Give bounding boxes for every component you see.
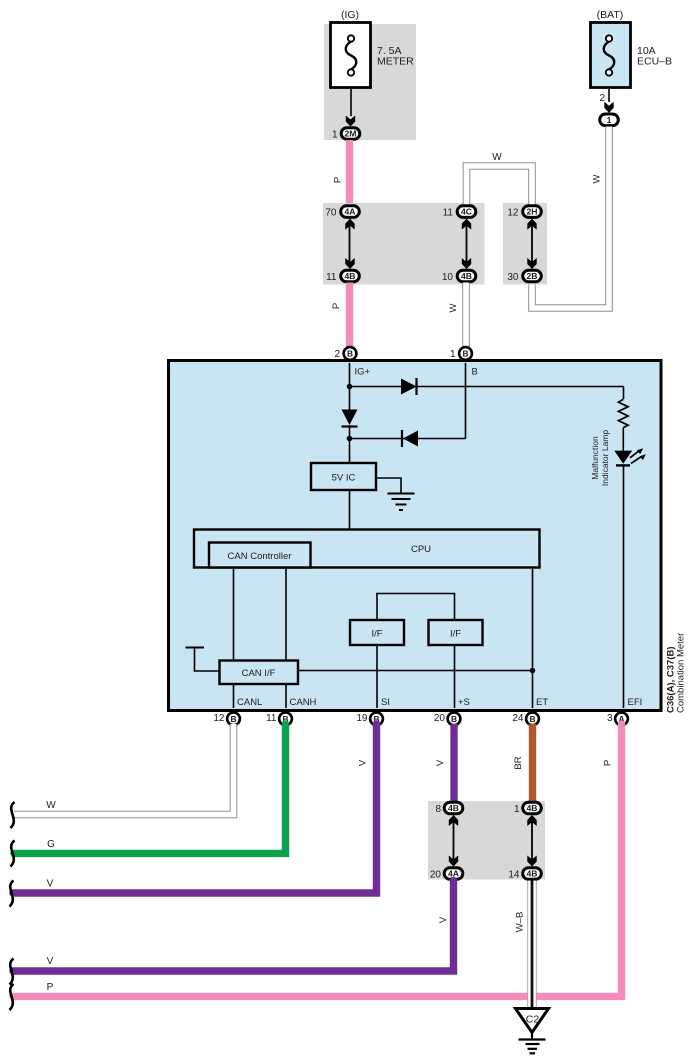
svg-text:V: V — [438, 916, 449, 923]
wire W-B (4B to ground C2) — [527, 881, 537, 1009]
svg-text:B: B — [230, 714, 236, 724]
svg-text:1: 1 — [332, 129, 338, 140]
svg-text:Combination Meter: Combination Meter — [676, 633, 687, 713]
svg-text:19: 19 — [356, 713, 368, 724]
connector 4B mid — [457, 270, 476, 282]
svg-text:4B: 4B — [461, 271, 472, 281]
connector 4B (lower) — [523, 868, 542, 880]
arrow into 2M — [346, 116, 355, 127]
svg-text:EFI: EFI — [628, 697, 643, 708]
svg-text:11: 11 — [443, 207, 454, 218]
svg-text:V: V — [47, 879, 54, 890]
svg-text:Indicator Lamp: Indicator Lamp — [600, 430, 610, 486]
diode D3 — [401, 430, 403, 447]
svg-text:B: B — [472, 367, 478, 378]
continuation squiggle — [11, 802, 15, 828]
svg-text:B: B — [529, 714, 535, 724]
wire G (CANH out) — [14, 724, 286, 853]
interface I/F 2 — [429, 620, 483, 645]
svg-text:8: 8 — [435, 804, 441, 815]
pass-through arrow 4C-4B — [466, 224, 468, 263]
connector 2H — [523, 206, 542, 218]
terminator stub — [186, 647, 205, 649]
junction diode node — [347, 436, 353, 442]
wire W (4C to 2H) — [467, 166, 533, 205]
fuse F2 10A ECU-B body — [591, 23, 631, 88]
wire BR (ET to 4B) — [529, 724, 536, 802]
LED D4 malfunction indicator lamp — [614, 451, 632, 464]
fuse F1 element — [346, 42, 357, 70]
svg-text:10: 10 — [442, 272, 454, 283]
ground C2 — [516, 1009, 549, 1033]
wire 5V IC to ground — [376, 478, 401, 493]
wire +S to pin — [454, 645, 456, 708]
svg-text:SI: SI — [381, 697, 390, 708]
regulator 5V IC — [311, 463, 376, 490]
svg-text:12: 12 — [507, 207, 519, 218]
wire lamp to EFI pin — [623, 466, 625, 709]
svg-text:METER: METER — [377, 56, 414, 68]
svg-text:4B: 4B — [527, 803, 538, 813]
svg-text:2M: 2M — [345, 129, 357, 139]
PART: bottom wires — [10, 724, 622, 1053]
junction connector shading bottom — [428, 801, 545, 880]
svg-text:24: 24 — [512, 713, 524, 724]
connector 4A (lower) — [444, 868, 463, 880]
svg-text:W: W — [448, 303, 459, 312]
pass-through arrow 4A-4B — [349, 224, 351, 263]
wire V (4A out) — [13, 881, 454, 972]
connector 2M — [341, 128, 360, 140]
svg-text:B: B — [451, 714, 457, 724]
connector 4B left — [341, 270, 360, 282]
wire B vertical — [465, 363, 467, 439]
svg-text:1: 1 — [607, 115, 612, 125]
connector pin A (EFI) — [615, 712, 628, 725]
connector pin B (CANH) — [279, 712, 292, 725]
junction block shading (IG) — [324, 24, 416, 140]
svg-text:ECU–B: ECU–B — [637, 56, 672, 68]
svg-text:W: W — [46, 800, 56, 811]
PART: BAT fuse area — [532, 9, 672, 308]
svg-text:12: 12 — [213, 713, 225, 724]
svg-text:(BAT): (BAT) — [597, 9, 624, 21]
connector 2B — [523, 270, 542, 282]
svg-text:W: W — [492, 152, 502, 163]
ground G1 — [388, 493, 415, 495]
wire 5V IC to CPU — [349, 490, 351, 530]
svg-text:P: P — [603, 760, 614, 766]
svg-text:4B: 4B — [345, 271, 356, 281]
svg-text:30: 30 — [507, 272, 519, 283]
wire CANH controller to CAN I/F — [285, 568, 287, 662]
svg-text:11: 11 — [266, 713, 277, 724]
connector 4A — [341, 206, 360, 218]
svg-text:W: W — [592, 174, 603, 183]
svg-text:4A: 4A — [345, 207, 356, 217]
svg-text:20: 20 — [430, 869, 442, 880]
svg-text:I/F: I/F — [450, 629, 461, 640]
connector 4B (+S upper) — [444, 802, 463, 814]
svg-text:V: V — [435, 759, 446, 766]
svg-text:P: P — [47, 982, 54, 993]
interface I/F 1 — [350, 620, 404, 645]
CAN Controller — [209, 543, 311, 568]
wire CANH to pin — [285, 684, 287, 708]
svg-text:P: P — [333, 177, 344, 183]
continuation squiggle — [10, 984, 14, 1010]
junction connector shading right — [503, 203, 547, 285]
connector pin B (SI) — [370, 712, 383, 725]
diode D2 — [342, 410, 358, 426]
wire W (BAT to 2B) — [532, 127, 609, 309]
wire W (CANL out) — [14, 724, 234, 815]
wire CANL to pin — [233, 684, 235, 708]
connector 4C — [457, 206, 476, 218]
wire V (+S to 4B) — [450, 724, 457, 802]
svg-text:2B: 2B — [527, 271, 538, 281]
svg-text:CPU: CPU — [411, 544, 431, 555]
svg-text:4B: 4B — [448, 803, 459, 813]
wire IG+ vertical — [349, 363, 351, 410]
connector pin B (CANL) — [227, 712, 240, 725]
wire V (SI out) — [13, 724, 377, 893]
continuation squiggle — [11, 841, 15, 867]
svg-text:5V IC: 5V IC — [332, 473, 356, 484]
continuation squiggle — [10, 881, 14, 907]
svg-text:C2: C2 — [526, 1014, 540, 1026]
svg-text:I/F: I/F — [371, 629, 382, 640]
PART: connector strip 1 — [323, 152, 547, 350]
wire top rail to lamp — [350, 386, 624, 388]
svg-text:+S: +S — [458, 697, 470, 708]
svg-text:V: V — [47, 956, 54, 967]
wire P (4B to meter pin 2) — [346, 283, 353, 351]
svg-text:CANL: CANL — [237, 697, 262, 708]
svg-text:ET: ET — [536, 697, 548, 708]
connector 1 — [600, 114, 619, 126]
connector pin B (+S) — [448, 712, 461, 725]
svg-text:BR: BR — [513, 756, 524, 769]
svg-text:3: 3 — [607, 713, 613, 724]
svg-text:W–B: W–B — [515, 912, 526, 933]
wire P (EFI out) — [13, 724, 622, 996]
wire second rail — [350, 438, 466, 440]
svg-text:V: V — [358, 759, 369, 766]
svg-text:CAN Controller: CAN Controller — [228, 551, 292, 562]
wire ET from CPU to pin — [532, 568, 534, 709]
svg-text:B: B — [462, 349, 468, 359]
CAN I/F — [220, 661, 299, 685]
svg-text:B: B — [347, 349, 353, 359]
svg-text:Malfunction: Malfunction — [590, 436, 600, 480]
wire SI to pin — [376, 645, 378, 708]
wire fuse to connector 2M — [350, 88, 352, 116]
continuation squiggle — [10, 959, 14, 985]
pass-through arrow 2H-2B — [531, 224, 533, 263]
svg-text:G: G — [47, 839, 55, 850]
svg-text:P: P — [331, 303, 342, 309]
pass-through arrow 4B-4A — [453, 820, 455, 860]
svg-text:4C: 4C — [461, 207, 472, 217]
connector pin B (B) — [459, 347, 472, 360]
svg-text:20: 20 — [434, 713, 446, 724]
junction connector shading left — [323, 203, 485, 285]
svg-text:2: 2 — [334, 349, 340, 360]
wire W (4B to meter pin 1) — [462, 283, 470, 351]
svg-text:70: 70 — [325, 207, 337, 218]
wire fuse to connector 1 — [608, 88, 610, 102]
junction ET branch — [530, 668, 536, 674]
diode D1 — [401, 379, 417, 395]
svg-text:CANH: CANH — [290, 697, 317, 708]
arrow into connector 1 — [604, 102, 613, 113]
fuse F1 7.5A METER body — [331, 23, 371, 88]
resistor R1 (lamp series) — [623, 387, 625, 400]
ECU U1 Combination Meter body — [169, 361, 662, 711]
svg-text:CAN I/F: CAN I/F — [242, 668, 276, 679]
svg-text:2H: 2H — [527, 207, 538, 217]
svg-text:1: 1 — [514, 804, 520, 815]
connector 4B (ET upper) — [523, 802, 542, 814]
svg-text:1: 1 — [450, 349, 456, 360]
wire P (2M to 4A) — [346, 140, 353, 204]
connector pin B (IG+) — [344, 347, 357, 360]
svg-text:4B: 4B — [527, 869, 538, 879]
fuse F2 element — [604, 42, 615, 70]
svg-text:11: 11 — [326, 272, 337, 283]
junction IG+/rail — [347, 384, 353, 390]
connector pin B (ET) — [526, 712, 539, 725]
svg-text:IG+: IG+ — [355, 367, 371, 378]
wire CAN I/F to ET — [298, 670, 533, 672]
PART: combination meter — [169, 347, 687, 725]
PART: IG fuse area — [324, 9, 416, 204]
wire I/F bridge — [377, 594, 455, 621]
wire CANL controller to CAN I/F — [233, 568, 235, 662]
pass-through arrow 4B-4B — [531, 820, 533, 860]
CPU — [194, 530, 540, 568]
svg-text:14: 14 — [508, 869, 520, 880]
svg-text:(IG): (IG) — [341, 9, 359, 21]
